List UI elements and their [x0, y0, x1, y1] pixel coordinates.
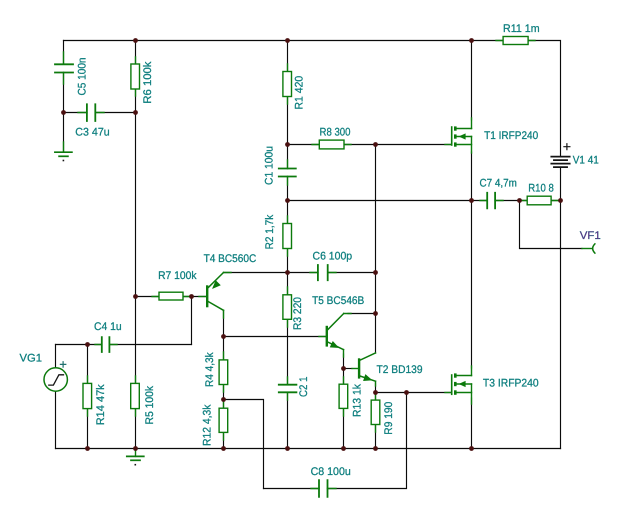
battery V1	[551, 144, 570, 167]
svg-text:V1 41: V1 41	[573, 155, 599, 167]
svg-text:R7 100k: R7 100k	[158, 270, 197, 282]
wire T2 emitter row to T3 gate	[376, 392, 452, 394]
svg-text:R13 1k: R13 1k	[351, 384, 363, 417]
node R4/R12	[221, 397, 226, 402]
resistor R8	[312, 140, 351, 149]
wire T2 emitter down	[375, 383, 377, 393]
wire output row	[288, 200, 561, 202]
resistor R2	[283, 216, 292, 256]
wire R6 column down to R5	[135, 41, 137, 449]
svg-text:T2 BD139: T2 BD139	[377, 364, 423, 376]
svg-text:T5 BC546B: T5 BC546B	[312, 295, 364, 307]
wire T5 base row	[224, 336, 326, 338]
svg-text:VF1: VF1	[580, 230, 601, 242]
svg-text:C1 100u: C1 100u	[264, 146, 276, 185]
wire VF1 branch	[520, 201, 583, 249]
svg-text:R14 47k: R14 47k	[95, 384, 107, 425]
resistor R6	[131, 57, 140, 96]
capacitor C6	[310, 265, 336, 280]
svg-text:C6 100p: C6 100p	[313, 251, 353, 263]
wire R4 R12 column	[223, 337, 225, 449]
svg-text:T1 IRFP240: T1 IRFP240	[484, 130, 538, 142]
node C5/C3	[61, 110, 66, 115]
svg-text:R5 100k: R5 100k	[144, 386, 156, 425]
ground (top left)	[55, 142, 72, 161]
wire T2 base row	[344, 368, 353, 370]
resistor R4	[219, 352, 228, 392]
wire T1 drain up	[471, 41, 473, 121]
node T5e/T2 base/R13	[341, 366, 346, 371]
capacitor C8	[311, 480, 336, 497]
node rail/R5/ground	[133, 446, 138, 451]
node T4c/R4/T5 base	[221, 334, 226, 339]
ground (bottom)	[127, 449, 144, 466]
resistor R12	[219, 401, 228, 440]
capacitor C3	[78, 104, 104, 121]
capacitor C5	[55, 52, 73, 84]
node T5/T2 collectors	[373, 311, 378, 316]
wire R1 C1 R2 R3 C2 column	[287, 41, 289, 449]
wire T4 base column	[191, 297, 193, 345]
resistor R3	[283, 287, 292, 327]
node R7/T4 base	[189, 294, 194, 299]
wire T4 collector to node	[223, 310, 225, 336]
wire R8 row and T1 gate	[288, 144, 452, 146]
wire R11 right to battery top	[528, 41, 561, 157]
node T3 gate/C8	[404, 390, 409, 395]
node C6 right	[373, 270, 378, 275]
svg-text:T3 IRFP240: T3 IRFP240	[483, 378, 539, 390]
node R8/T1 gate	[373, 142, 378, 147]
node rail/T3 source	[469, 446, 474, 451]
node C3/R6	[133, 110, 138, 115]
svg-text:C7 4,7m: C7 4,7m	[480, 178, 517, 190]
wire T3 drain up to output	[471, 201, 473, 369]
capacitor C2	[279, 377, 297, 400]
wire C6 row	[224, 272, 376, 274]
wire R14 leads	[87, 345, 89, 449]
wire C8 row	[264, 393, 407, 489]
capacitor C4	[95, 337, 117, 352]
node rail/R13	[341, 446, 346, 451]
wire C3 row	[64, 112, 136, 114]
node rail/R14	[85, 446, 90, 451]
transistor T2 BD139 (NPN)	[352, 353, 376, 386]
svg-text:C3 47u: C3 47u	[75, 127, 109, 139]
transistor T5 BC546B (NPN)	[319, 314, 351, 358]
node R1/R8/C1	[285, 142, 290, 147]
svg-text:R9 190: R9 190	[383, 402, 395, 435]
node C7/R10/VF1	[517, 198, 522, 203]
mosfet T1 IRFP240	[445, 118, 472, 153]
resistor R7	[152, 292, 190, 300]
svg-text:R8 300: R8 300	[320, 127, 351, 139]
terminal VF1	[582, 244, 595, 253]
wire T5 emitter to T2 base node	[343, 354, 345, 369]
resistor R9	[371, 393, 380, 433]
resistor R14	[83, 376, 92, 416]
node C4/R14	[85, 342, 90, 347]
svg-text:R12 4,3k: R12 4,3k	[202, 404, 214, 446]
svg-text:VG1: VG1	[20, 353, 43, 365]
wire T3 source down	[471, 398, 473, 449]
node rail/C2	[285, 446, 290, 451]
capacitor C1	[279, 160, 296, 185]
resistor R1	[283, 64, 292, 104]
wire x375 column R8 to T2 collector	[375, 145, 377, 354]
transistor T4 BC560C (PNP)	[199, 273, 231, 319]
svg-text:C8 100u: C8 100u	[311, 466, 351, 478]
wire C4 row	[56, 344, 192, 346]
wire C5 column	[63, 41, 65, 153]
wire T1 source down to output	[471, 152, 473, 201]
resistor R10	[520, 196, 558, 205]
svg-text:R10 8: R10 8	[528, 183, 554, 195]
svg-text:R4 4,3k: R4 4,3k	[204, 352, 216, 387]
resistor R13	[339, 377, 348, 416]
node top rail / R1	[285, 38, 290, 43]
node rail/R12	[221, 446, 226, 451]
wire VG1 column	[55, 345, 57, 449]
node R2/C6/T4e	[285, 270, 290, 275]
node R10/V1	[558, 198, 563, 203]
svg-text:R3 220: R3 220	[292, 297, 304, 330]
wire R13 leads	[343, 369, 345, 449]
svg-text:R6 100k: R6 100k	[142, 61, 154, 103]
mosfet T3 IRFP240	[445, 366, 472, 404]
svg-text:R1 420: R1 420	[294, 76, 306, 110]
node output C1/R2	[285, 198, 290, 203]
node top rail / T1 drain	[469, 38, 474, 43]
resistor R11	[496, 37, 535, 45]
node output T1/T3	[469, 198, 474, 203]
node top rail / R6	[133, 38, 138, 43]
wire bottom rail	[56, 448, 561, 450]
svg-text:C2 1: C2 1	[298, 377, 310, 398]
wire top rail	[64, 40, 504, 42]
wire R9 leads	[375, 393, 377, 449]
svg-text:R11 1m: R11 1m	[503, 23, 540, 35]
capacitor C7	[480, 193, 503, 209]
wire battery bottom down right edge	[560, 168, 562, 449]
node rail/R9	[373, 446, 378, 451]
wire R4-R12 node to C8 left	[224, 400, 264, 489]
svg-text:C5 100n: C5 100n	[76, 58, 88, 96]
wire T5 collector row	[348, 313, 376, 315]
svg-text:T4 BC560C: T4 BC560C	[204, 253, 257, 265]
svg-text:C4 1u: C4 1u	[94, 321, 122, 333]
node R7 left	[133, 294, 138, 299]
generator VG1	[44, 362, 67, 391]
svg-text:R2 1,7k: R2 1,7k	[264, 214, 276, 249]
node T2e/R9	[373, 390, 378, 395]
wire R7 row	[136, 296, 207, 298]
resistor R5	[131, 376, 140, 416]
